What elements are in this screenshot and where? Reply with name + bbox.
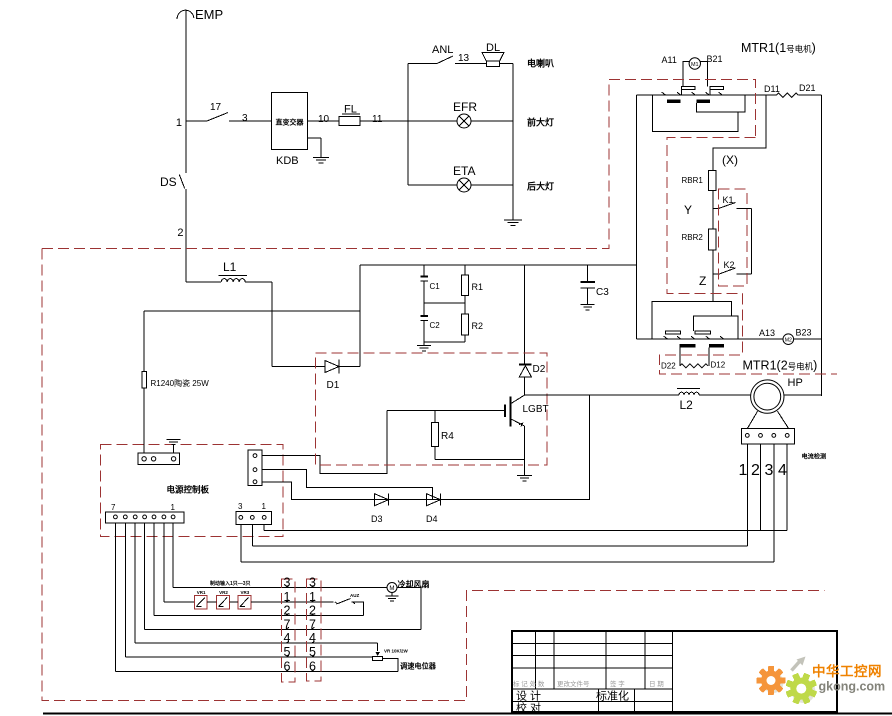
- wire FL to lamp branch: [360, 120, 408, 122]
- varistor VR3: [238, 596, 251, 610]
- svg-text:DS: DS: [160, 175, 177, 189]
- svg-text:11: 11: [372, 114, 383, 125]
- wire sensor pin1: [746, 444, 748, 546]
- wire EFR to right bus: [471, 120, 513, 122]
- svg-text:电源控制板: 电源控制板: [167, 485, 210, 495]
- svg-text:M: M: [389, 585, 394, 592]
- wire row A (J3 pin1 to sensor pins 2,4): [263, 524, 265, 530]
- svg-text:D22: D22: [661, 362, 676, 371]
- power board dashed box 电源控制板: [101, 445, 283, 537]
- wire top rail y265: [360, 264, 637, 266]
- wire Z down to motor2: [712, 274, 714, 301]
- svg-text:1: 1: [739, 462, 748, 479]
- wire M1 right lead: [700, 62, 707, 87]
- svg-text:D12: D12: [711, 361, 726, 370]
- watermark logo gkong: [757, 657, 886, 705]
- wire row B (J3 pin2 to sensor pin1): [251, 524, 253, 546]
- transistor LGBT (IGBT): [504, 405, 506, 417]
- svg-text:RBR1: RBR1: [682, 176, 704, 185]
- ground (fan): [391, 593, 393, 596]
- wire AUZ return to net2: [351, 602, 363, 616]
- varistor VR2: [217, 596, 230, 610]
- svg-text:D21: D21: [799, 83, 816, 93]
- wire branch left bus: [407, 64, 409, 186]
- svg-text:中华工控网: 中华工控网: [812, 663, 882, 679]
- connector J5 (sensor 4 pin): [741, 428, 794, 444]
- wire to switch ANL: [408, 63, 437, 65]
- frame bottom line: [43, 713, 892, 715]
- wire KDB to fuse FL: [308, 120, 339, 122]
- wire bus to M2: [752, 338, 783, 340]
- svg-text:(X): (X): [722, 153, 738, 167]
- field winding D11-D21: [745, 94, 776, 96]
- wire EMP vertical to switch DS: [185, 11, 187, 174]
- varistor VR1: [194, 596, 207, 610]
- svg-text:D2: D2: [533, 364, 546, 375]
- svg-text:EMP: EMP: [195, 7, 223, 22]
- svg-text:7: 7: [111, 503, 116, 512]
- svg-text:KDB: KDB: [276, 155, 299, 167]
- svg-text:ETA: ETA: [453, 164, 475, 178]
- wire lamp right bus: [512, 64, 514, 220]
- wire to diode D1: [272, 366, 325, 368]
- brush 1: [682, 87, 695, 90]
- inner dashed box (chopper): [316, 353, 548, 465]
- ground (C2): [423, 342, 425, 345]
- wire net3 from J2 pin1: [172, 523, 174, 588]
- svg-text:标准化: 标准化: [596, 689, 629, 703]
- svg-text:电喇叭: 电喇叭: [527, 58, 554, 69]
- svg-text:B21: B21: [707, 54, 723, 64]
- svg-text:Z: Z: [699, 274, 706, 288]
- resistor R2: [464, 303, 466, 314]
- wire D1 to bus node: [339, 366, 360, 368]
- svg-text:R4: R4: [441, 431, 454, 442]
- svg-text:MTR1(2号电机): MTR1(2号电机): [743, 359, 818, 373]
- svg-text:13: 13: [458, 53, 470, 64]
- wire armature bus y339: [637, 338, 752, 340]
- wire commutator out: [696, 95, 745, 112]
- wire sensor pin2: [760, 444, 762, 531]
- motor M2: [783, 334, 794, 345]
- commutator bar 3: [680, 344, 696, 347]
- capacitor C2: [423, 303, 425, 316]
- wire J4 pin2 to D3/D4 junction: [262, 470, 433, 500]
- ground (IGBT emitter): [517, 475, 532, 477]
- motor2 frame outer: [652, 302, 732, 340]
- svg-text:VR1: VR1: [197, 590, 206, 595]
- wire mid rail: [424, 302, 465, 304]
- svg-text:C3: C3: [596, 287, 609, 298]
- inductor L2: [677, 388, 700, 390]
- svg-text:VR3: VR3: [241, 590, 250, 595]
- svg-text:VR 10K/2W: VR 10K/2W: [384, 649, 409, 654]
- svg-text:Y: Y: [684, 203, 692, 217]
- wire to lamp EFR: [408, 120, 457, 122]
- ground (lamp bus): [504, 219, 522, 221]
- fuse FL: [339, 117, 360, 126]
- svg-text:MTR1(1号电机): MTR1(1号电机): [741, 41, 816, 55]
- wire emitter down: [524, 426, 526, 475]
- svg-text:L2: L2: [680, 398, 694, 412]
- title block table: [512, 631, 837, 712]
- field winding D22-D12: [679, 347, 681, 366]
- ground (board): [167, 439, 181, 441]
- resistor RBR1: [708, 171, 716, 191]
- svg-text:gkong.com: gkong.com: [819, 680, 886, 694]
- switch 17: [207, 113, 228, 122]
- converter box KDB (直变交器): [271, 92, 307, 149]
- commutator bar 1: [667, 100, 680, 103]
- wire rail to R1240: [144, 310, 360, 312]
- wire corner down to D1: [271, 282, 273, 367]
- svg-text:后大灯: 后大灯: [527, 181, 554, 192]
- wire K1 to K2 right: [750, 209, 752, 275]
- resistor R1240 陶瓷 25W: [142, 371, 147, 388]
- diode D4: [427, 494, 441, 506]
- svg-text:A13: A13: [759, 328, 775, 338]
- connector J3 (3 pin bottom): [236, 512, 271, 525]
- wire sensor pin4: [786, 444, 788, 531]
- svg-text:4: 4: [778, 462, 787, 479]
- wire right bus x821: [821, 95, 823, 396]
- potentiometer 调速电位器: [377, 643, 379, 651]
- svg-text:签 字: 签 字: [610, 679, 625, 688]
- wire to lamp ETA: [408, 184, 457, 186]
- brush 4: [695, 331, 710, 334]
- svg-text:C2: C2: [430, 321, 441, 330]
- svg-text:3: 3: [765, 462, 774, 479]
- svg-text:标 记 处 数: 标 记 处 数: [513, 679, 545, 688]
- svg-text:2: 2: [177, 227, 183, 239]
- wire gate: [387, 410, 505, 412]
- diode D2 (cathode bar up): [519, 364, 531, 366]
- svg-text:AUZ: AUZ: [350, 593, 359, 598]
- svg-text:M1: M1: [691, 62, 699, 68]
- capacitor C3: [587, 265, 589, 281]
- wire J4 pin3 to D3 D4 rail: [262, 395, 590, 500]
- brush 2: [710, 87, 723, 90]
- wire M1 left lead: [683, 62, 689, 87]
- node EMP (antenna terminal): [177, 10, 194, 19]
- K1K2 dashed box: [719, 189, 747, 286]
- wire bottom rail: [424, 341, 465, 343]
- svg-text:制动输入1只—3只: 制动输入1只—3只: [210, 580, 251, 587]
- wire node2 to L1 to corner: [186, 281, 221, 283]
- svg-text:D4: D4: [426, 514, 438, 524]
- svg-text:1: 1: [171, 503, 176, 512]
- motor M1: [689, 58, 700, 69]
- svg-text:设 计: 设 计: [516, 690, 541, 703]
- wire collector to HP: [525, 394, 680, 396]
- motor2 frame inner: [694, 316, 739, 339]
- svg-text:前大灯: 前大灯: [527, 117, 554, 128]
- svg-text:3: 3: [238, 502, 243, 511]
- commutator bar 4: [709, 344, 724, 347]
- diode D1: [325, 361, 339, 373]
- svg-text:M2: M2: [785, 338, 792, 344]
- capacitor C1: [423, 265, 425, 276]
- svg-text:RBR2: RBR2: [682, 233, 704, 242]
- svg-text:B23: B23: [796, 328, 812, 338]
- wire D2 to collector node: [524, 377, 526, 395]
- brush 3: [666, 331, 681, 334]
- terminal column A: [281, 579, 295, 682]
- wire net6 from J2 pin7: [114, 523, 116, 672]
- svg-text:FL: FL: [344, 104, 357, 116]
- svg-text:HP: HP: [788, 377, 803, 389]
- wire row C (J3 pin3 to sensor pin3): [240, 524, 242, 562]
- ground (KDB): [308, 137, 321, 139]
- wire pot right to net6: [383, 658, 398, 671]
- wire D11 node down to X: [713, 95, 766, 170]
- wire sensor pin3: [773, 444, 775, 562]
- wire HP to right bus: [784, 394, 822, 396]
- svg-text:校 对: 校 对: [516, 701, 541, 715]
- wire net4 from J2 pin5: [134, 523, 136, 643]
- svg-text:3: 3: [242, 113, 248, 124]
- fan motor 冷却风扇: [382, 587, 387, 589]
- wire armature frame: [653, 95, 738, 131]
- svg-text:R2: R2: [472, 321, 484, 331]
- wire M2 to right bus: [794, 338, 822, 340]
- svg-text:2: 2: [751, 462, 760, 479]
- wire node1 to switch 17: [186, 120, 207, 122]
- svg-text:L1: L1: [223, 260, 237, 274]
- wire DS down to L1: [185, 189, 187, 282]
- wire rail down to D2: [524, 265, 526, 365]
- svg-text:1: 1: [262, 502, 267, 511]
- wire fan to net7: [397, 588, 421, 630]
- wire L2 to HP: [699, 394, 751, 396]
- wire ETA to right bus: [471, 184, 513, 186]
- wire switch17 to KDB: [229, 120, 271, 122]
- HP mount trapezoid: [748, 411, 758, 428]
- wire net5 from J2 pin6: [124, 523, 126, 657]
- wire R4 bottom to emitter: [435, 459, 525, 461]
- svg-text:D3: D3: [371, 514, 383, 524]
- connector J1 (3 hole): [138, 453, 180, 465]
- pump motor HP: [751, 380, 784, 413]
- wire J4 pin1 to gate: [262, 411, 387, 474]
- terminal column B: [307, 579, 322, 681]
- svg-text:1: 1: [176, 117, 182, 129]
- svg-text:VR2: VR2: [219, 590, 228, 595]
- svg-text:LGBT: LGBT: [523, 404, 549, 415]
- wire net7 from J2 pin4: [144, 523, 146, 629]
- connector J4 (3 pin vertical): [248, 450, 262, 485]
- svg-text:D11: D11: [764, 84, 780, 94]
- switch ANL: [437, 56, 453, 64]
- svg-text:D1: D1: [327, 380, 340, 391]
- wire armature bus y95: [637, 94, 746, 96]
- svg-text:电流检测: 电流检测: [802, 453, 827, 461]
- svg-text:调速电位器: 调速电位器: [400, 662, 437, 671]
- svg-text:10: 10: [318, 114, 330, 125]
- wire net1 from J2 pin2: [163, 523, 165, 602]
- wire net2 from J2 pin3: [153, 523, 155, 616]
- svg-text:ANL: ANL: [432, 44, 453, 56]
- wire DL to right bus: [500, 63, 513, 65]
- svg-text:R1240陶瓷 25W: R1240陶瓷 25W: [151, 378, 210, 388]
- commutator bar 2: [696, 100, 710, 103]
- wire between VR boxes: [207, 601, 217, 603]
- svg-text:更改文件号: 更改文件号: [557, 679, 590, 688]
- switch DS: [179, 174, 185, 188]
- connector J2 (7 pin): [105, 512, 184, 523]
- resistor R1: [464, 265, 466, 275]
- svg-text:直变交器: 直变交器: [276, 118, 305, 127]
- wire bus vertical x360: [359, 265, 361, 367]
- wire left bus down (x636): [636, 95, 638, 339]
- dashed boundary outer: [42, 80, 756, 249]
- diode D3: [375, 494, 389, 506]
- svg-text:A11: A11: [662, 55, 677, 65]
- resistor RBR2: [712, 209, 714, 229]
- svg-text:日 期: 日 期: [649, 680, 664, 688]
- resistor R4: [434, 411, 436, 423]
- wire ANL to speaker DL: [455, 63, 486, 65]
- svg-text:17: 17: [210, 102, 222, 113]
- wire R1240 to power board: [143, 388, 145, 453]
- svg-text:EFR: EFR: [453, 100, 477, 114]
- svg-text:R1: R1: [472, 282, 484, 292]
- svg-text:C1: C1: [430, 282, 441, 291]
